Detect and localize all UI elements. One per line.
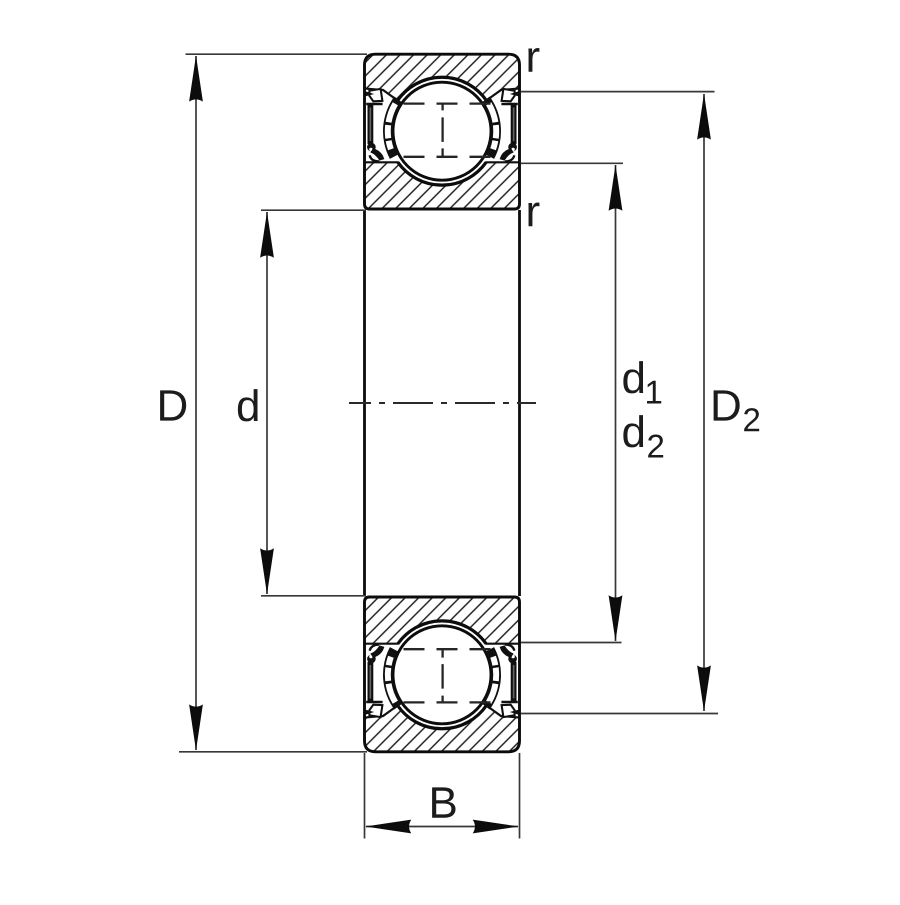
dimension B line with outward arrows [365, 820, 518, 834]
dimension B extension line right [519, 753, 521, 839]
bore line right [518, 210, 521, 596]
outer raceway arc [398, 706, 487, 729]
dimension d1/d2 extension line bottom [521, 642, 622, 644]
label d [238, 389, 258, 421]
outer ring cross-section (hatched) [365, 706, 520, 752]
top bearing section [365, 54, 520, 209]
dimension D extension line bottom [179, 751, 367, 753]
ball [393, 82, 491, 180]
label d2 [623, 415, 663, 457]
outer ring cross-section (hatched) [365, 54, 520, 100]
ring outline [365, 597, 520, 752]
cage (right half) [482, 647, 501, 709]
label D2 [714, 390, 760, 431]
seal (left) [365, 645, 384, 718]
dimension d line with arrows [260, 212, 274, 595]
label r (outer ring corner radius) [528, 48, 539, 72]
label D [160, 390, 186, 420]
ball pitch dashed lines [404, 104, 491, 157]
seal (left) [365, 89, 384, 162]
inner ring cross-section (hatched) [365, 597, 520, 644]
dimension D2 line with arrows [697, 94, 711, 712]
label d1 [623, 361, 661, 403]
dimension D extension line top [186, 53, 368, 55]
dimension D line with arrows [189, 56, 203, 751]
centerline (dash-dot axis) [349, 402, 536, 404]
label B [432, 787, 455, 817]
inner ring cross-section (hatched) [365, 162, 520, 209]
bottom bearing section (mirrored) [365, 597, 520, 752]
dimension d1/d2 line with arrows [609, 165, 623, 641]
dimension d extension line top [261, 209, 366, 211]
seal (right) [500, 89, 519, 162]
inner raceway arc [398, 621, 486, 644]
outer raceway arc [398, 77, 487, 100]
ball [393, 626, 491, 724]
ring outline [365, 54, 520, 209]
dimension d extension line bottom [261, 595, 366, 597]
cage (right half) [482, 97, 501, 159]
dimension d1/d2 extension line top [521, 162, 623, 164]
bore line left [363, 210, 366, 596]
label r (inner ring corner radius) [528, 203, 539, 227]
seal (right) [500, 645, 519, 718]
dimension D2 extension line top [521, 91, 715, 93]
cage (left half) [383, 97, 402, 159]
ball pitch dashed lines [404, 649, 491, 702]
dimension D2 extension line bottom [521, 713, 718, 715]
dimension B extension line left [364, 753, 366, 839]
inner raceway arc [398, 162, 486, 185]
cage (left half) [383, 647, 402, 709]
